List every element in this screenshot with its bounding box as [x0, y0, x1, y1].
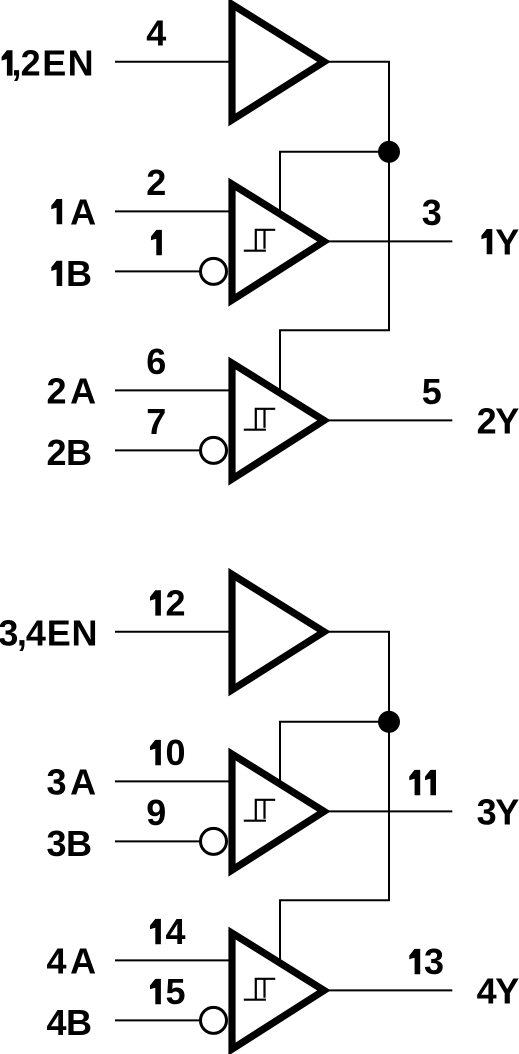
net label 3B: [47, 823, 93, 864]
wire enable branch to upper gate: [280, 152, 389, 216]
gate gate 4 triangle: [232, 933, 324, 1049]
wire input 1B: [115, 270, 202, 272]
hysteresis symbol of gate gate 4: [244, 979, 275, 1000]
svg-text:2: 2: [47, 370, 67, 411]
svg-text:N: N: [68, 43, 94, 84]
net label 1Y: [481, 221, 519, 262]
pin 11 (3Y): [409, 770, 436, 795]
wire 3,4EN enable input: [115, 631, 229, 633]
svg-text:A: A: [70, 370, 96, 411]
net label 4Y: [477, 970, 519, 1011]
svg-text:9: 9: [146, 792, 166, 833]
wire output 4Y: [328, 989, 452, 991]
buffer 1,2EN driver enable driver triangle: [232, 4, 324, 120]
wire enable trunk from buffer output to lower gate: [280, 632, 389, 965]
svg-text:E: E: [42, 43, 66, 84]
svg-text:A: A: [70, 940, 96, 981]
pin 3 (1Y): [422, 192, 442, 233]
svg-text:B: B: [66, 253, 92, 294]
net label 1B: [51, 253, 92, 294]
svg-text:3: 3: [0, 613, 18, 654]
hysteresis symbol of gate gate 1: [244, 230, 275, 251]
svg-text:B: B: [66, 432, 92, 473]
svg-text:6: 6: [146, 341, 166, 382]
pin 14 (4A): [150, 911, 186, 952]
svg-text:3: 3: [422, 192, 442, 233]
pin 2 (1A): [146, 162, 166, 203]
gate gate 3 triangle: [232, 754, 324, 870]
pin 1 (1B): [151, 230, 162, 255]
svg-text:E: E: [47, 613, 71, 654]
wire input 1A: [115, 210, 229, 212]
svg-text:2: 2: [477, 400, 497, 441]
svg-text:4: 4: [477, 970, 497, 1011]
pin 7 (2B): [146, 401, 166, 442]
svg-text:N: N: [72, 613, 98, 654]
svg-text:2: 2: [21, 43, 41, 84]
wire input 2A: [115, 389, 229, 391]
svg-text:A: A: [70, 191, 96, 232]
gate gate 2 triangle: [232, 363, 324, 479]
svg-text:0: 0: [166, 732, 186, 773]
svg-text:2: 2: [47, 432, 67, 473]
wire input 4A: [115, 959, 229, 961]
net label 3Y: [477, 791, 519, 832]
svg-text:Y: Y: [495, 400, 519, 441]
svg-text:2: 2: [146, 162, 166, 203]
svg-text:Y: Y: [495, 791, 519, 832]
svg-text:Y: Y: [495, 221, 519, 262]
svg-text:4: 4: [47, 1002, 67, 1043]
net label 2B: [47, 432, 93, 473]
pin 12 (3,4EN): [150, 583, 186, 624]
pin 13 (4Y): [409, 941, 444, 982]
pin 6 (2A): [146, 341, 166, 382]
wire enable branch to upper gate: [280, 722, 389, 786]
wire input 3B: [115, 840, 202, 842]
wire output 2Y: [328, 419, 452, 421]
pin 15 (4B): [150, 971, 186, 1012]
net label 2Y: [477, 400, 519, 441]
svg-text:3: 3: [477, 791, 497, 832]
node enable junction dot: [378, 141, 400, 163]
svg-text:4: 4: [47, 940, 67, 981]
svg-text:A: A: [70, 761, 96, 802]
svg-text:4: 4: [26, 613, 46, 654]
pin 5 (2Y): [422, 371, 442, 412]
pin 10 (3A): [150, 732, 186, 773]
svg-text:5: 5: [422, 371, 442, 412]
wire output 3Y: [328, 810, 452, 812]
wire 1,2EN enable input: [115, 61, 229, 63]
svg-text:B: B: [66, 823, 92, 864]
inverter bubble on 4B input: [201, 1007, 227, 1033]
svg-text:7: 7: [146, 401, 166, 442]
svg-text:4: 4: [146, 13, 166, 54]
svg-text:3: 3: [47, 761, 67, 802]
wire input 3A: [115, 780, 229, 782]
svg-text:Y: Y: [495, 970, 519, 1011]
wire enable trunk from buffer output to lower gate: [280, 62, 389, 395]
wire output 1Y: [328, 240, 452, 242]
hysteresis symbol of gate gate 3: [244, 800, 275, 821]
svg-text:B: B: [66, 1002, 92, 1043]
net label 3,4EN: [0, 613, 97, 654]
net label 3A: [47, 761, 97, 802]
pin 4 (1,2EN): [146, 13, 166, 54]
net label 4A: [47, 940, 97, 981]
wire input 2B: [115, 449, 202, 451]
inverter bubble on 2B input: [201, 437, 227, 463]
svg-text:4: 4: [166, 911, 186, 952]
node enable junction dot: [378, 711, 400, 733]
gate gate 1 triangle: [232, 184, 324, 300]
buffer 3,4EN driver enable driver triangle: [232, 574, 324, 690]
net label 4B: [47, 1002, 93, 1043]
hysteresis symbol of gate gate 2: [244, 409, 275, 430]
net label 1A: [51, 191, 96, 232]
svg-text:2: 2: [166, 583, 186, 624]
pin 9 (3B): [146, 792, 166, 833]
inverter bubble on 1B input: [201, 258, 227, 284]
wire input 4B: [115, 1019, 202, 1021]
svg-text:3: 3: [424, 941, 444, 982]
net label 1,2EN: [2, 43, 94, 84]
net label 2A: [47, 370, 97, 411]
svg-text:5: 5: [166, 971, 186, 1012]
svg-text:3: 3: [47, 823, 67, 864]
inverter bubble on 3B input: [201, 828, 227, 854]
